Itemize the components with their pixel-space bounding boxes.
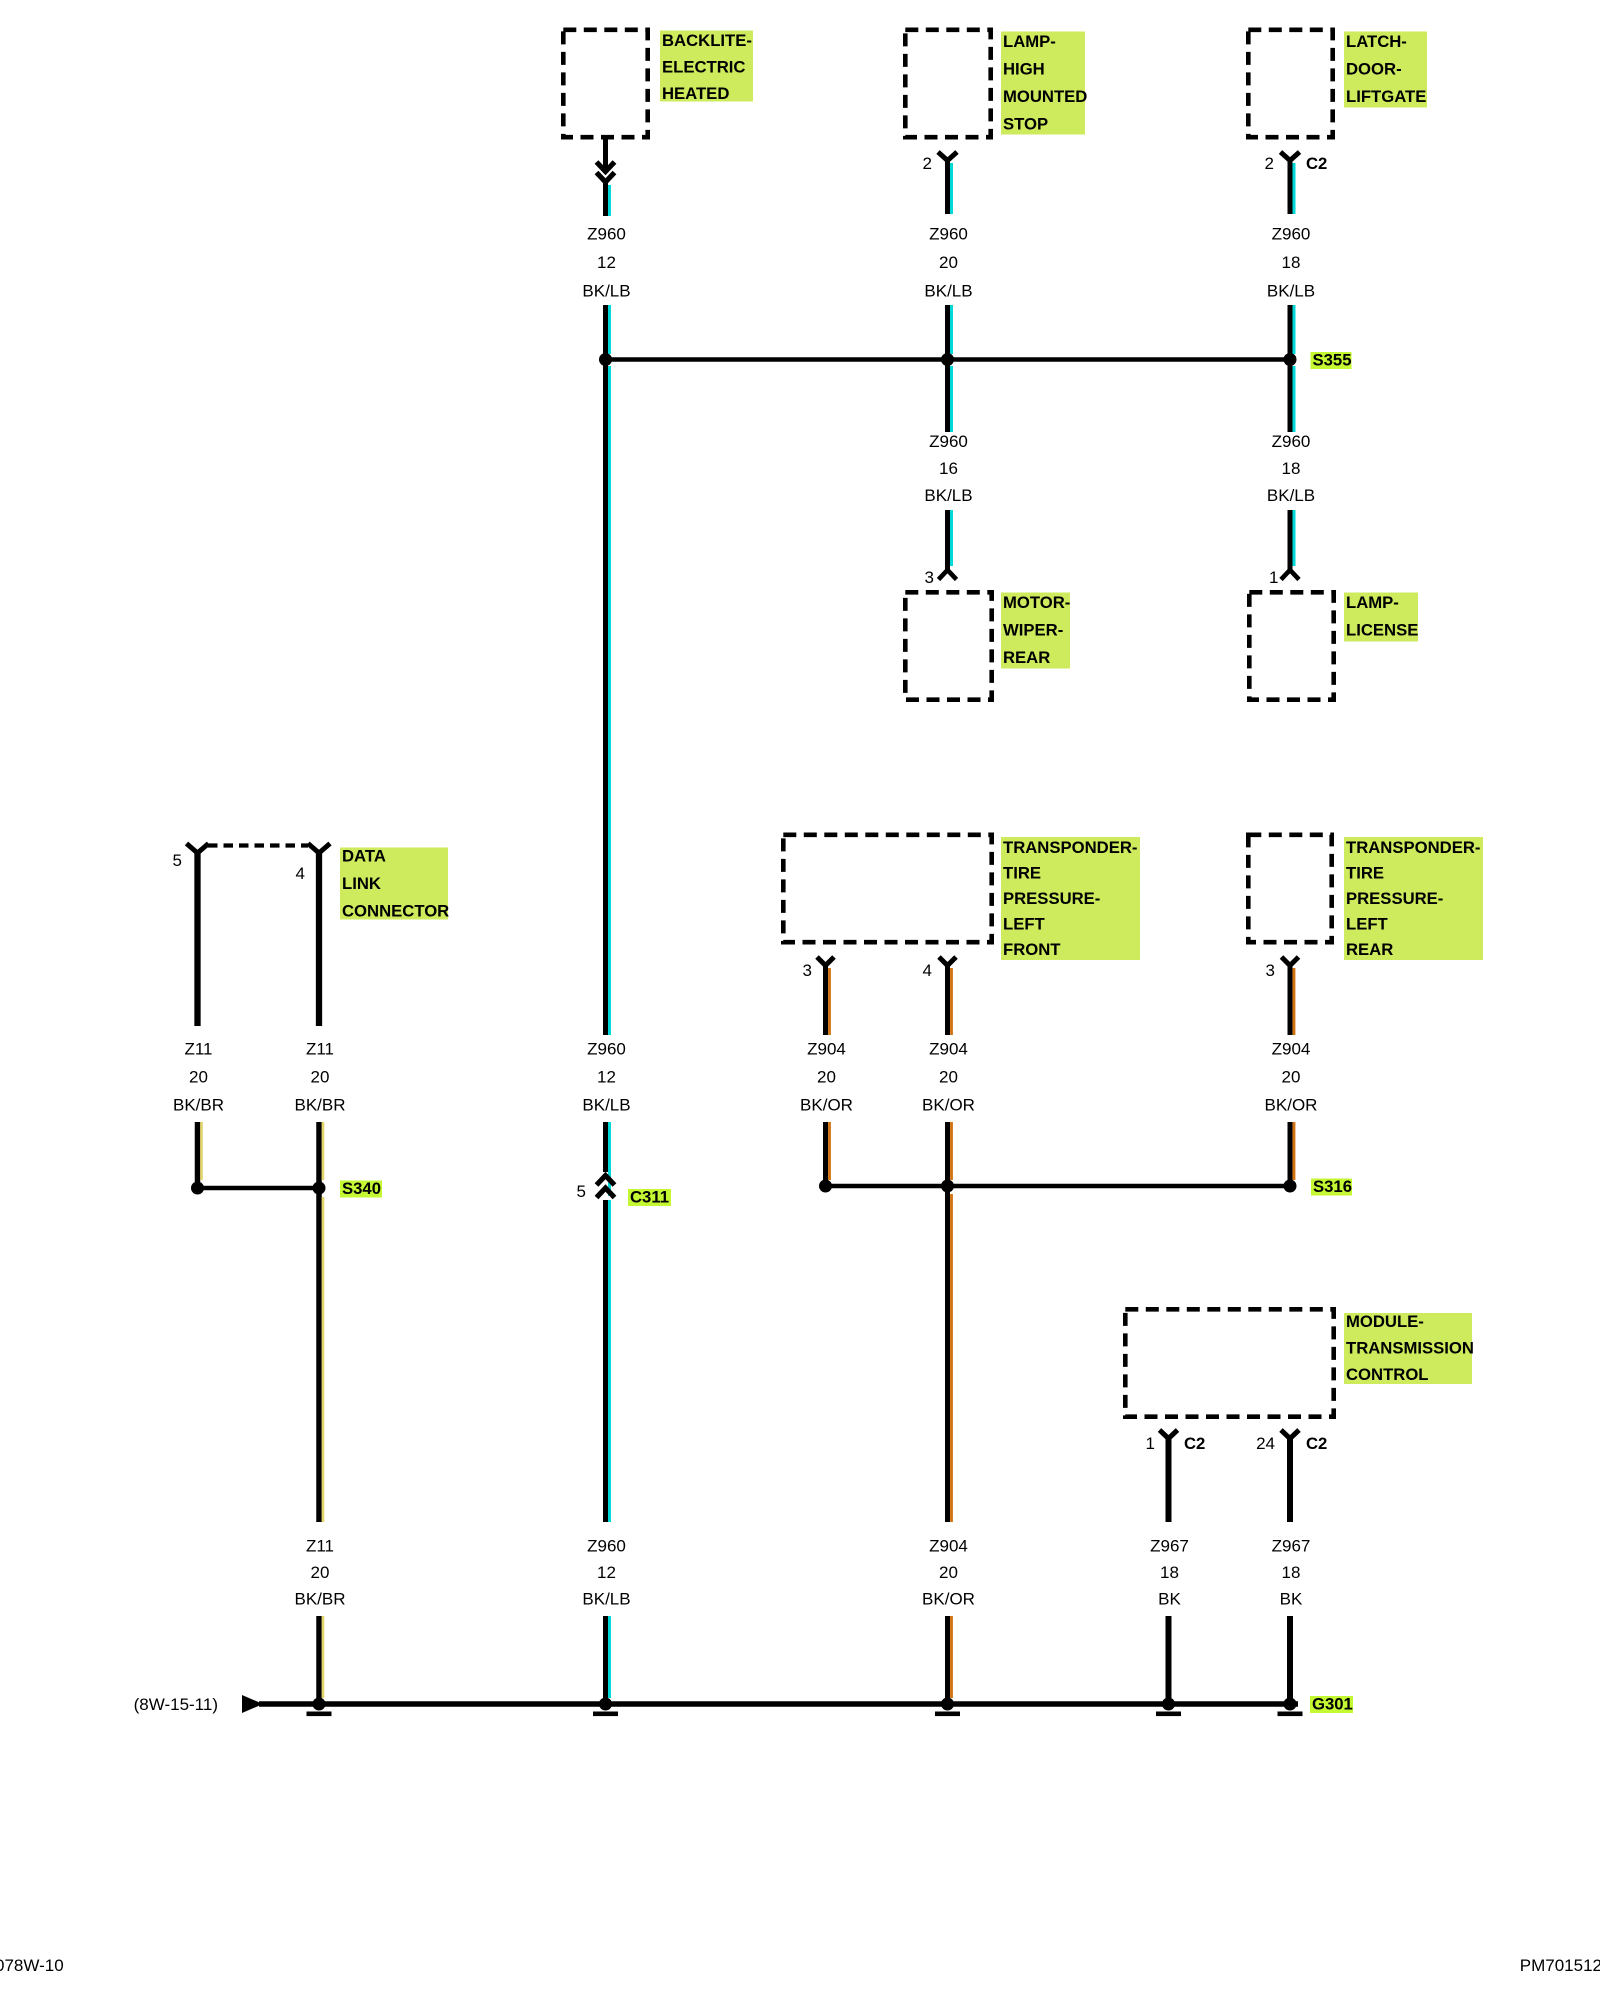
svg-text:18: 18 [1282, 1563, 1301, 1582]
wire Z960 16 BK/LB: segment to MOTOR-WIPER-REAR (col D) [948, 510, 952, 571]
ground tick at col F [1278, 1712, 1303, 1717]
svg-text:12: 12 [597, 1068, 616, 1087]
wire Z11 20 BK/BR: segment to ground bus (col B) [319, 1616, 323, 1701]
svg-text:PRESSURE-: PRESSURE- [1003, 889, 1100, 908]
label: BACKLITE-ELECTRIC HEATED [660, 31, 753, 104]
svg-text:Z960: Z960 [587, 225, 626, 244]
svg-text:20: 20 [311, 1068, 330, 1087]
ground tick at col G [1156, 1712, 1181, 1717]
svg-text:20: 20 [1282, 1068, 1301, 1087]
svg-text:Z11: Z11 [184, 1040, 212, 1059]
svg-text:S340: S340 [342, 1179, 381, 1198]
svg-text:Z960: Z960 [929, 432, 968, 451]
svg-text:C2: C2 [1184, 1434, 1205, 1453]
svg-text:S355: S355 [1313, 351, 1352, 370]
svg-text:TRANSPONDER-: TRANSPONDER- [1346, 838, 1480, 857]
svg-text:LEFT: LEFT [1346, 915, 1389, 934]
svg-text:BK/LB: BK/LB [1267, 282, 1315, 301]
junction at col B on ground bus [313, 1698, 326, 1711]
svg-text:MOTOR-: MOTOR- [1003, 593, 1070, 612]
wire Z960 18 BK/LB: segment to S355 bus (col F) [1290, 305, 1294, 358]
junction at col F on S316 [1284, 1180, 1297, 1193]
svg-text:1: 1 [1269, 568, 1278, 587]
connector box: TRANSPONDER-TIRE PRESSURE-LEFT REAR [1248, 835, 1331, 942]
connector fork below TPM-LF pin 4 [939, 957, 956, 966]
ground tick at col C [593, 1712, 618, 1717]
wire label Z904 20 BK/OR (col F lower) [1265, 1040, 1318, 1115]
connector fork below TPM-LF pin 3 [817, 957, 834, 966]
ground label G301 [1310, 1695, 1353, 1714]
inline connector symbol (double chevron) below BACKLITE [597, 162, 615, 182]
svg-text:BK/BR: BK/BR [173, 1096, 224, 1115]
wire Z960 18 BK/LB: segment below box (col F) [1290, 159, 1294, 214]
svg-text:PRESSURE-: PRESSURE- [1346, 889, 1443, 908]
connector fork below TPM-LR pin 3 [1282, 957, 1299, 966]
svg-text:S316: S316 [1313, 1177, 1352, 1196]
wire label Z904 20 BK/OR (col D lower) [922, 1040, 975, 1115]
wire Z904 20 BK/OR: segment to S316 (col E) [826, 1122, 830, 1183]
svg-text:2: 2 [923, 154, 932, 173]
svg-text:G301: G301 [1312, 1695, 1353, 1714]
junction at col A on S340 [191, 1182, 204, 1195]
svg-text:4: 4 [296, 864, 305, 883]
svg-text:FRONT: FRONT [1003, 940, 1061, 959]
svg-text:PM701512: PM701512 [1520, 1956, 1600, 1975]
svg-text:20: 20 [817, 1068, 836, 1087]
wire Z960 12 BK/LB: long segment below C311 (col C) [606, 1200, 610, 1522]
wire Z904 20 BK/OR: long segment below S316 (col D) [948, 1190, 952, 1522]
svg-text:20: 20 [939, 1068, 958, 1087]
splice label S316 [1311, 1177, 1352, 1196]
wire Z967 18 BK: segment below TCM pin 24 (col F) [1287, 1437, 1293, 1522]
svg-text:Z904: Z904 [929, 1040, 968, 1059]
ground tick at col D [935, 1712, 960, 1717]
svg-text:CONNECTOR: CONNECTOR [342, 902, 449, 921]
label: LATCH-DOOR-LIFTGATE [1344, 32, 1427, 108]
wire Z904 20 BK/OR: segment below TPM-LR (col F) [1290, 964, 1294, 1036]
connector box: LATCH-DOOR-LIFTGATE [1248, 30, 1332, 137]
junction at col D on S316 [941, 1180, 954, 1193]
svg-text:DOOR-: DOOR- [1346, 60, 1402, 79]
junction at col G on ground bus [1162, 1698, 1175, 1711]
svg-text:078W-10: 078W-10 [0, 1956, 64, 1975]
wire Z967 18 BK: segment to ground bus (col F) [1287, 1616, 1293, 1701]
svg-text:20: 20 [189, 1068, 208, 1087]
svg-text:BK: BK [1280, 1590, 1303, 1609]
wire label Z11 20 BK/BR (col B) [294, 1040, 345, 1115]
wire Z960 12 BK/LB: segment to ground bus (col C) [606, 1616, 610, 1701]
junction at col C on S355 [599, 353, 612, 366]
svg-text:BK/LB: BK/LB [1267, 486, 1315, 505]
DATA LINK CONNECTOR dashed outline between pins [208, 843, 308, 847]
svg-text:BACKLITE-: BACKLITE- [662, 31, 752, 50]
svg-text:Z960: Z960 [1272, 225, 1311, 244]
svg-text:3: 3 [803, 961, 812, 980]
junction at col B on S340 [313, 1182, 326, 1195]
wire Z960 12 BK/LB: long segment below S355 (col C) [606, 362, 610, 1035]
svg-text:LEFT: LEFT [1003, 915, 1046, 934]
wire Z967 18 BK: segment to ground bus (col G) [1166, 1616, 1172, 1701]
svg-text:2: 2 [1265, 154, 1274, 173]
connector fork below TCM pin 1 [1160, 1430, 1178, 1439]
wire label Z11 20 BK/BR (col A) [173, 1040, 224, 1115]
connector box: TRANSPONDER-TIRE PRESSURE-LEFT FRONT [783, 835, 991, 942]
svg-text:BK/OR: BK/OR [1265, 1096, 1318, 1115]
wire Z904 20 BK/OR: segment to S316 (col D) [948, 1122, 952, 1183]
wire label Z960 12 BK/LB (col C bottom) [582, 1537, 630, 1609]
splice bus S355 [606, 357, 1291, 362]
wire Z960 16 BK/LB: segment below S355 (col D) [948, 362, 952, 432]
svg-text:4: 4 [923, 961, 932, 980]
svg-text:12: 12 [597, 253, 616, 272]
svg-text:BK/LB: BK/LB [924, 282, 972, 301]
svg-text:CONTROL: CONTROL [1346, 1365, 1429, 1384]
splice bus S340 [198, 1186, 320, 1191]
svg-text:Z967: Z967 [1272, 1537, 1311, 1556]
svg-text:20: 20 [939, 253, 958, 272]
wire label Z960 12 BK/LB (col C top) [582, 225, 630, 301]
connector box: BACKLITE-ELECTRIC HEATED [563, 30, 647, 137]
wire Z967 18 BK: segment below TCM pin 1 (col G) [1166, 1437, 1172, 1522]
svg-text:18: 18 [1282, 459, 1301, 478]
svg-text:TIRE: TIRE [1003, 864, 1041, 883]
connector box: LAMP-HIGH MOUNTED STOP [905, 30, 990, 137]
wire Z11 20 BK/BR: lead from DLC pin 4 (col B) [316, 851, 322, 1026]
svg-text:BK/OR: BK/OR [800, 1096, 853, 1115]
svg-text:BK/LB: BK/LB [582, 1096, 630, 1115]
svg-text:HEATED: HEATED [662, 84, 729, 103]
junction at col C on ground bus [599, 1698, 612, 1711]
connector fork below LATCH-DOOR-LIFTGATE [1281, 152, 1300, 161]
connector box: MOTOR-WIPER-REAR [905, 592, 991, 699]
svg-text:LAMP-: LAMP- [1346, 593, 1399, 612]
svg-text:TRANSMISSION: TRANSMISSION [1346, 1339, 1474, 1358]
svg-text:5: 5 [577, 1182, 586, 1201]
svg-text:LIFTGATE: LIFTGATE [1346, 87, 1426, 106]
svg-text:BK/OR: BK/OR [922, 1590, 975, 1609]
svg-text:BK/BR: BK/BR [294, 1096, 345, 1115]
label: TRANSPONDER-TIRE PRESSURE-LEFT REAR [1344, 837, 1483, 960]
wire Z960 20 BK/LB: segment to S355 bus (col D) [948, 305, 952, 358]
wire label Z960 12 BK/LB (col C mid) [582, 1040, 630, 1115]
svg-text:3: 3 [925, 568, 934, 587]
connector fork above LAMP-LICENSE [1281, 570, 1299, 580]
svg-text:STOP: STOP [1003, 115, 1048, 134]
svg-text:5: 5 [173, 851, 182, 870]
wire Z960 12 BK/LB: segment below connector (col C) [606, 180, 610, 216]
wire Z904 20 BK/OR: segment below TPM-LF pin 4 (col D) [948, 964, 952, 1036]
svg-text:(8W-15-11): (8W-15-11) [134, 1695, 218, 1714]
wire label Z960 18 BK/LB (col F mid) [1267, 432, 1315, 505]
svg-text:BK/LB: BK/LB [582, 1590, 630, 1609]
junction at col D on S355 [941, 353, 954, 366]
wire Z904 20 BK/OR: segment below TPM-LF pin 3 (col E) [826, 964, 830, 1036]
connector fork at DATA LINK CONNECTOR pin 4 [308, 844, 330, 854]
svg-text:12: 12 [597, 1563, 616, 1582]
connector fork above MOTOR-WIPER-REAR [939, 570, 957, 580]
splice label S355 [1311, 351, 1352, 370]
svg-text:Z960: Z960 [587, 1040, 626, 1059]
svg-text:1: 1 [1146, 1434, 1155, 1453]
wire Z960 12 BK/LB: segment to S355 bus (col C) [606, 305, 610, 358]
svg-text:ELECTRIC: ELECTRIC [662, 58, 745, 77]
ground bus G301 [259, 1701, 1298, 1706]
wire Z904 20 BK/OR: segment to S316 (col F) [1290, 1122, 1294, 1183]
svg-text:18: 18 [1160, 1563, 1179, 1582]
svg-text:Z967: Z967 [1150, 1537, 1189, 1556]
wire Z960 18 BK/LB: segment to LAMP-LICENSE (col F) [1290, 510, 1294, 571]
svg-text:C2: C2 [1306, 1434, 1327, 1453]
svg-text:HIGH: HIGH [1003, 60, 1045, 79]
svg-text:BK/BR: BK/BR [294, 1590, 345, 1609]
svg-text:LINK: LINK [342, 874, 381, 893]
wire Z11 20 BK/BR: segment to S340 (col B) [319, 1122, 323, 1184]
svg-text:18: 18 [1282, 253, 1301, 272]
wire label Z967 18 BK (col G) [1150, 1537, 1189, 1609]
svg-text:BK/LB: BK/LB [924, 486, 972, 505]
svg-text:REAR: REAR [1346, 940, 1393, 959]
label: DATA LINK CONNECTOR [340, 847, 449, 921]
wire Z960 12 BK/LB: segment to C311 (col C) [606, 1122, 610, 1196]
wire label Z967 18 BK (col F bottom) [1272, 1537, 1311, 1609]
wire label Z960 18 BK/LB (col F top) [1267, 225, 1315, 301]
svg-text:20: 20 [939, 1563, 958, 1582]
connector box: MODULE-TRANSMISSION CONTROL [1125, 1309, 1333, 1416]
svg-text:Z904: Z904 [1272, 1040, 1311, 1059]
svg-text:C2: C2 [1306, 154, 1327, 173]
wire Z904 20 BK/OR: segment to ground bus (col D) [948, 1616, 952, 1701]
svg-text:BK/LB: BK/LB [582, 282, 630, 301]
splice label S340 [340, 1179, 382, 1198]
wire Z11 20 BK/BR: lead from DLC pin 5 (col A) [194, 851, 200, 1026]
svg-text:LAMP-: LAMP- [1003, 32, 1056, 51]
connector fork below LAMP-HIGH MOUNTED STOP [938, 152, 957, 161]
svg-text:20: 20 [311, 1563, 330, 1582]
inline connector C311 (double chevron) [597, 1176, 615, 1198]
svg-text:Z960: Z960 [1272, 432, 1311, 451]
svg-text:Z11: Z11 [306, 1040, 334, 1059]
label: LAMP-HIGH MOUNTED STOP [1001, 32, 1087, 135]
wire Z960 20 BK/LB: segment below box (col D) [948, 159, 952, 214]
label: MOTOR-WIPER-REAR [1001, 593, 1070, 669]
svg-text:TIRE: TIRE [1346, 864, 1384, 883]
connector box: LAMP-LICENSE [1249, 592, 1333, 699]
label: TRANSPONDER-TIRE PRESSURE-LEFT FRONT [1001, 837, 1140, 960]
wire Z11 20 BK/BR: segment to S340 (col A) [198, 1122, 202, 1184]
svg-text:Z960: Z960 [929, 225, 968, 244]
svg-text:C311: C311 [630, 1188, 669, 1207]
splice bus S316 [826, 1184, 1291, 1189]
off-page arrow into ground bus [242, 1695, 263, 1713]
wire label Z960 20 BK/LB (col D top) [924, 225, 972, 301]
wire label Z904 20 BK/OR (col D bottom) [922, 1537, 975, 1609]
svg-text:BK/OR: BK/OR [922, 1096, 975, 1115]
svg-text:BK: BK [1158, 1590, 1181, 1609]
svg-text:Z904: Z904 [929, 1537, 968, 1556]
label: MODULE-TRANSMISSION CONTROL [1344, 1312, 1474, 1384]
ground tick at col B [307, 1712, 332, 1717]
lead from BACKLITE box [603, 140, 608, 171]
junction at col E on S316 [819, 1180, 832, 1193]
wire label Z960 16 BK/LB (col D mid) [924, 432, 972, 505]
connector fork at DATA LINK CONNECTOR pin 5 [187, 844, 209, 854]
svg-text:LICENSE: LICENSE [1346, 621, 1418, 640]
wire label Z904 20 BK/OR (col E) [800, 1040, 853, 1115]
wire label Z11 20 BK/BR (col B bottom) [294, 1537, 345, 1609]
svg-text:3: 3 [1266, 961, 1275, 980]
svg-text:MOUNTED: MOUNTED [1003, 87, 1087, 106]
svg-text:TRANSPONDER-: TRANSPONDER- [1003, 838, 1137, 857]
svg-text:DATA: DATA [342, 847, 386, 866]
connector fork below TCM pin 24 [1281, 1430, 1299, 1439]
svg-text:24: 24 [1256, 1434, 1275, 1453]
svg-text:Z904: Z904 [807, 1040, 846, 1059]
connector label C311 [628, 1188, 671, 1207]
svg-text:WIPER-: WIPER- [1003, 621, 1063, 640]
svg-text:Z960: Z960 [587, 1537, 626, 1556]
label: LAMP-LICENSE [1344, 593, 1418, 642]
wire Z11 20 BK/BR: long segment below S340 (col B) [319, 1193, 323, 1522]
junction at col D on ground bus [941, 1698, 954, 1711]
junction at col F on S355 [1284, 353, 1297, 366]
svg-text:Z11: Z11 [306, 1537, 334, 1556]
svg-text:REAR: REAR [1003, 648, 1050, 667]
wire Z960 18 BK/LB: segment below S355 (col F) [1290, 362, 1294, 432]
junction at col F on ground bus [1284, 1698, 1297, 1711]
svg-text:16: 16 [939, 459, 958, 478]
svg-text:MODULE-: MODULE- [1346, 1312, 1424, 1331]
svg-text:LATCH-: LATCH- [1346, 32, 1407, 51]
